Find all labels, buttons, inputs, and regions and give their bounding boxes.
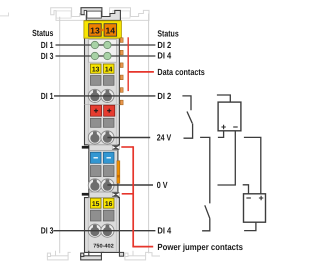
svg-text:DI 3: DI 3 (41, 226, 54, 236)
switch S1 blade (187, 112, 192, 124)
battery B1 box (218, 102, 241, 131)
svg-text:15: 15 (92, 201, 100, 208)
svg-text:13: 13 (92, 66, 100, 73)
clamp DI3 (88, 224, 101, 237)
battery B2 minus sign (246, 197, 251, 199)
wire status DI3 row (56, 55, 156, 57)
battery B1 plus terminal to 24V (218, 131, 224, 138)
battery B2 bottom terminal to DI4 (244, 222, 256, 230)
clamp 0V right (101, 179, 114, 192)
clamp 24V right (101, 131, 114, 144)
svg-text:DI 4: DI 4 (157, 51, 171, 61)
module body (85, 21, 120, 253)
module inner face lines (87, 38, 89, 145)
battery B1 minus terminal to 0V (218, 131, 236, 185)
red plus button 2 (104, 105, 115, 116)
ghost right bottom foot (125, 256, 146, 260)
minus sign 1 (94, 157, 98, 159)
ghost left bottom foot (47, 256, 68, 260)
svg-text:DI 2: DI 2 (157, 40, 171, 50)
battery B1 minus sign (233, 126, 238, 128)
svg-text:24 V: 24 V (157, 133, 172, 143)
LED panel (89, 40, 117, 63)
module bottom right step (119, 252, 123, 256)
wire DI3 clamp row (53, 230, 155, 232)
wire DI2 to switch S1 (182, 96, 191, 110)
data contact 3 (120, 63, 123, 68)
push button B1a (90, 118, 101, 127)
separator line (85, 103, 120, 105)
plus sign 1 (94, 109, 98, 113)
battery B2 box (244, 194, 266, 222)
module bottom foot (81, 256, 102, 260)
switch S2 blade (205, 205, 210, 218)
LED DI1 (91, 41, 98, 48)
svg-text:Status: Status (157, 28, 178, 38)
top yellow label plate (84, 21, 122, 38)
orange terminal number 14 box (104, 24, 117, 37)
push button C1 (90, 210, 101, 221)
ghost module right top profile (110, 8, 149, 21)
data contact 6 (120, 100, 123, 105)
LED DI2 (104, 41, 111, 48)
svg-text:13: 13 (90, 25, 100, 35)
clamp DI2 (101, 89, 114, 102)
ghost module left top profile (51, 8, 90, 21)
wire 24V row (107, 137, 150, 139)
data contact 2 (120, 50, 123, 55)
LED DI3 (91, 52, 98, 59)
svg-text:Power jumper contacts: Power jumper contacts (157, 242, 243, 252)
power jumper socket icon upper right (112, 145, 119, 150)
push button A2 (103, 76, 114, 86)
svg-text:DI 1: DI 1 (41, 91, 54, 101)
battery B2 plus sign (259, 196, 263, 200)
module top profile (81, 8, 120, 21)
clamp 24V left (88, 131, 101, 144)
ghost module right edge line (148, 14, 150, 254)
power jumper pin left upper (82, 146, 89, 149)
yellow label 15 (90, 198, 101, 208)
push button A1 (90, 76, 101, 86)
power jumper pin left lower (82, 193, 89, 196)
power jumper contact orange bar (117, 161, 120, 184)
push button B2b (103, 166, 114, 177)
ghost module left edge line (59, 17, 61, 253)
clamp DI1 (88, 89, 101, 102)
orange link between 13 and 14 (101, 29, 104, 31)
data contact 5 (120, 88, 123, 93)
svg-text:750-402: 750-402 (93, 244, 114, 250)
clamp 0V left (88, 179, 101, 192)
yellow label 14 (103, 64, 114, 73)
yellow label 16 (103, 198, 114, 208)
svg-text:DI 2: DI 2 (157, 91, 171, 101)
blue minus button 1 (90, 152, 101, 163)
wire status DI1 row (56, 44, 156, 46)
switch S1 lower lead to 24V (184, 124, 193, 139)
module top profile white gap (85, 11, 86, 15)
push button B2a (90, 166, 101, 177)
svg-text:DI 1: DI 1 (41, 40, 54, 50)
wire 24V to switch S2 feed (200, 137, 210, 203)
wire 0V row (107, 184, 153, 186)
plus sign 2 (107, 109, 111, 113)
push button B1b (103, 118, 114, 127)
battery B1 plus sign (221, 125, 225, 129)
power jumper red elbow to label (132, 246, 153, 248)
power jumper socket icon lower right (112, 192, 119, 197)
switch S2 lower lead to DI4 (202, 219, 210, 231)
LED DI4 (104, 52, 111, 59)
svg-text:14: 14 (106, 25, 116, 35)
svg-text:14: 14 (105, 66, 113, 73)
power jumper red vertical (132, 146, 134, 246)
ghost far left top mark (0, 13, 9, 16)
battery B2 minus terminal to 0V (243, 185, 249, 194)
push button C2 (103, 210, 114, 221)
contact band lower (89, 191, 118, 193)
battery B1 top elbow (217, 95, 230, 102)
data contacts red line vertical (127, 37, 129, 91)
svg-text:DI 3: DI 3 (41, 51, 54, 61)
svg-text:Data contacts: Data contacts (157, 67, 204, 77)
clamp DI4 (101, 224, 114, 237)
power jumper red branch upper (121, 146, 133, 148)
contact band upper (89, 144, 118, 146)
orange terminal number 13 box (89, 24, 102, 37)
data contacts red branch (128, 71, 154, 73)
wire 24V to battery B2 (244, 137, 261, 193)
svg-text:16: 16 (105, 201, 113, 208)
minus sign 2 (107, 157, 111, 159)
module top profile white cavity (87, 11, 101, 18)
power jumper red branch lower (122, 193, 134, 195)
data contact 4 (120, 75, 123, 80)
yellow label 13 (90, 64, 101, 73)
svg-text:0 V: 0 V (157, 180, 168, 190)
red plus button 1 (90, 105, 101, 116)
wire DI1 clamp row (54, 95, 155, 97)
data contact 1 (120, 38, 123, 43)
svg-text:Status: Status (32, 28, 53, 38)
svg-text:DI 4: DI 4 (157, 226, 171, 236)
blue minus button 2 (103, 152, 114, 163)
